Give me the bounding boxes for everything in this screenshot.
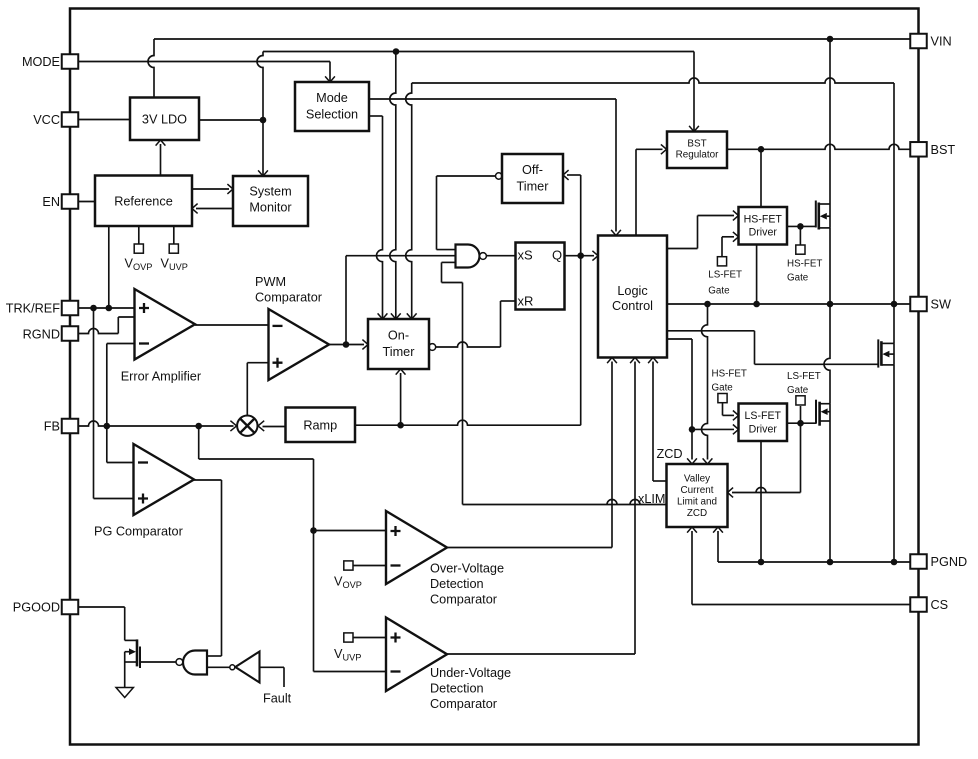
pin TRK/REF <box>62 301 79 316</box>
svg-text:Selection: Selection <box>306 108 358 122</box>
wire PGND rail to Valley block <box>713 527 910 562</box>
wire LS-FET drain to SW <box>824 304 830 404</box>
svg-text:VCC: VCC <box>33 113 60 127</box>
svg-text:LS-FET: LS-FET <box>745 410 782 422</box>
wire Reference to System Monitor <box>192 184 233 194</box>
junction SW / valley sense <box>704 301 711 308</box>
terminal LS-FET Gate (sense for HS driver) <box>717 232 738 266</box>
svg-text:MODE: MODE <box>22 55 60 69</box>
arrow into Logic Control top <box>611 230 621 236</box>
svg-text:xR: xR <box>518 293 534 308</box>
svg-text:Under-Voltage: Under-Voltage <box>430 666 511 680</box>
multiplier (FB x Ramp) <box>237 416 257 436</box>
wire SW rail <box>667 303 910 305</box>
wire EN to Reference <box>79 201 96 203</box>
pin SW <box>910 297 927 312</box>
pin MODE <box>62 54 79 69</box>
svg-text:On-: On- <box>388 329 409 343</box>
svg-text:Q: Q <box>552 247 562 262</box>
pin EN <box>62 194 79 209</box>
transistor LS-FET A <box>816 400 830 426</box>
junction TRK/REF / PG branch <box>90 305 97 312</box>
wire multiplier to PWM + <box>247 363 268 416</box>
svg-text:PGND: PGND <box>931 555 968 569</box>
svg-text:Comparator: Comparator <box>255 291 323 305</box>
wire Reference to TRK/REF node <box>108 226 110 308</box>
wire Logic Control to FET2 gate <box>667 331 878 365</box>
wire CS to Valley block <box>687 527 910 605</box>
junction SW / sense wire <box>891 301 898 308</box>
block HS-FET Driver <box>739 207 788 245</box>
wire MODE to Mode Selection <box>79 62 331 83</box>
svg-text:Gate: Gate <box>708 286 730 297</box>
block System Monitor <box>233 176 308 226</box>
wire xLIM from Valley block to NAND <box>442 262 667 504</box>
svg-text:Valley: Valley <box>684 474 710 485</box>
pin FB <box>62 419 79 434</box>
arrow into On-Timer top (SW) <box>407 313 417 319</box>
wire BST to HS-FET Driver top <box>760 149 762 207</box>
terminal VUVP (comparator) <box>344 633 386 642</box>
svg-text:3V LDO: 3V LDO <box>142 112 187 126</box>
terminal LS-FET Gate <box>796 396 805 423</box>
block Reference <box>95 176 192 227</box>
wire TRK/REF to PG Comparator + <box>94 308 134 499</box>
svg-text:Detection: Detection <box>430 682 484 696</box>
wire Reference to 3V LDO <box>156 140 166 176</box>
junction TRK/REF / Reference <box>106 305 113 312</box>
wire FB main <box>79 421 234 426</box>
svg-text:Detection: Detection <box>430 577 484 591</box>
wire LS-FET source to PGND <box>829 421 831 562</box>
pin VCC <box>62 112 79 127</box>
wire HS-FET Driver output <box>787 225 816 227</box>
svg-text:ZCD: ZCD <box>687 508 707 519</box>
svg-text:SW: SW <box>931 298 951 312</box>
svg-text:Control: Control <box>612 299 653 313</box>
arrows into Logic Control bottom <box>607 358 617 364</box>
wire Valley block to Logic Control <box>648 358 666 482</box>
svg-text:Comparator: Comparator <box>430 593 498 607</box>
NAND gate U3 (PGOOD, mirrored) <box>183 651 207 675</box>
junction VIN/HS-FET drain <box>827 36 834 43</box>
inverter Fault (mirrored) <box>235 652 259 683</box>
wire Under-Voltage Comparator to Logic Control <box>447 362 635 655</box>
arrow into On-Timer top (3V rail) <box>391 313 401 319</box>
junction Q node <box>577 252 584 259</box>
wire FET2 drain to SW <box>893 304 895 343</box>
wire Ramp to multiplier <box>263 426 286 428</box>
wire FET2 source to PGND <box>893 365 895 562</box>
svg-text:HS-FET: HS-FET <box>744 213 783 225</box>
terminal VOVP (comparator) <box>344 561 386 570</box>
wire TRK/REF to Error Amplifier + <box>79 307 135 309</box>
latch U1 (xS/xR/Q) <box>516 243 565 310</box>
junction 3V rail / On-Timer branch <box>393 48 400 55</box>
junction SW / FETs <box>827 301 834 308</box>
junction FB / comparator branch <box>195 423 202 430</box>
svg-text:Comparator: Comparator <box>430 697 498 711</box>
wire to On-Timer bottom <box>396 369 406 425</box>
wire LS-FET Driver output <box>787 422 816 424</box>
svg-text:Monitor: Monitor <box>249 201 292 215</box>
wire Logic Control to LS-FET Driver and Valley <box>667 339 739 464</box>
svg-text:RGND: RGND <box>23 328 60 342</box>
arrow into Mode Selection top <box>325 76 335 82</box>
svg-text:Timer: Timer <box>517 180 550 194</box>
svg-text:xS: xS <box>518 247 534 262</box>
comparator PG <box>134 444 195 515</box>
svg-text:Off-: Off- <box>522 163 543 177</box>
block Off-Timer <box>502 154 563 203</box>
wire VCC to 3V LDO <box>79 119 131 121</box>
bubble Off-Timer output <box>496 173 502 179</box>
svg-text:Gate: Gate <box>712 383 734 394</box>
svg-text:EN: EN <box>42 195 60 209</box>
bubble On-Timer output <box>429 344 436 351</box>
svg-text:Driver: Driver <box>749 424 778 436</box>
junction PGND / FET2 <box>891 559 898 566</box>
arrow into On-Timer top (mode) <box>378 313 388 319</box>
wire BST Regulator to BST pin <box>727 144 910 149</box>
wire Q to Off-Timer <box>563 170 581 256</box>
wire Mode Selection to Logic Control <box>369 99 616 232</box>
svg-text:VIN: VIN <box>931 35 952 49</box>
junction PGND / LS driver <box>758 559 765 566</box>
wire SW sense to On-Timer <box>406 78 894 319</box>
wire Logic Control to BST Regulator <box>636 144 667 235</box>
svg-text:HS-FET: HS-FET <box>787 259 822 270</box>
svg-text:Timer: Timer <box>383 345 416 359</box>
wire System Monitor to Reference <box>192 204 233 214</box>
wire inverter to NAND U3 <box>207 666 230 668</box>
wire On-Timer output to xR <box>436 301 516 347</box>
junction FB / EA-PG branch <box>104 423 111 430</box>
wire RGND to Error Amplifier <box>79 317 135 334</box>
svg-text:Logic: Logic <box>617 284 648 298</box>
transistor Q1 PGOOD open-drain <box>125 639 140 668</box>
block Ramp <box>286 408 356 443</box>
wire PWM output to On-Timer <box>329 340 368 350</box>
arrow into System Monitor top <box>258 170 268 176</box>
pin RGND <box>62 326 79 341</box>
svg-text:Driver: Driver <box>749 227 778 239</box>
junction BST / HS driver <box>758 146 765 153</box>
comparator Under-Voltage Detection <box>386 618 447 692</box>
svg-text:Reference: Reference <box>114 194 173 208</box>
wire HS-FET source to SW <box>829 228 831 304</box>
ground symbol <box>116 662 133 698</box>
wire NAND U3 output to Q1 gate <box>140 661 176 663</box>
wire FB to PG Comparator - <box>107 426 134 463</box>
comparator Over-Voltage Detection <box>386 511 447 584</box>
pin PGND <box>910 554 927 569</box>
svg-text:Error Amplifier: Error Amplifier <box>121 370 202 384</box>
transistor HS-FET <box>816 201 830 230</box>
wire NAND output to xS <box>487 255 516 257</box>
wire PG Comparator to NAND <box>194 480 222 656</box>
wire Logic Control to HS-FET Driver <box>667 211 739 249</box>
NAND gate U2 <box>456 245 480 268</box>
block LS-FET Driver <box>739 404 788 442</box>
wire PWM output to NAND <box>346 256 456 345</box>
wire Mode Selection to On-Timer <box>369 116 383 319</box>
op-amp Error Amplifier <box>135 289 196 360</box>
svg-text:ZCD: ZCD <box>657 447 683 461</box>
svg-text:PGOOD: PGOOD <box>13 601 60 615</box>
junction ZCD node <box>689 426 696 433</box>
wire HS-FET Driver to SW <box>756 245 758 305</box>
terminal VUVP under Reference <box>169 226 178 253</box>
junction PWM output <box>343 341 350 348</box>
svg-text:Limit and: Limit and <box>677 497 717 508</box>
svg-text:Ramp: Ramp <box>303 418 337 432</box>
block Valley Current Limit and ZCD <box>667 464 728 527</box>
svg-text:PWM: PWM <box>255 275 286 289</box>
svg-text:LS-FET: LS-FET <box>708 270 742 281</box>
svg-text:TRK/REF: TRK/REF <box>6 302 61 316</box>
wire Q to Ramp and On-Timer <box>355 256 581 426</box>
arrow into BST Regulator top <box>689 126 699 132</box>
svg-text:BST: BST <box>687 138 706 149</box>
wire FB to Error Amplifier - <box>107 344 135 427</box>
svg-text:System: System <box>249 185 291 199</box>
svg-text:LS-FET: LS-FET <box>787 371 821 382</box>
pin VIN <box>910 34 927 49</box>
junction PGND / LS-FET <box>827 559 834 566</box>
wire SW to Valley block <box>702 304 713 464</box>
wire PGOOD to open-drain FET <box>79 607 125 640</box>
junction 3V LDO output <box>260 117 267 124</box>
svg-text:CS: CS <box>931 598 949 612</box>
wire Error Amplifier to PWM - <box>195 324 269 326</box>
pin PGOOD <box>62 600 79 615</box>
wire Fault input <box>260 667 285 687</box>
block BST Regulator <box>667 132 727 169</box>
comparator PWM <box>269 309 330 380</box>
block Logic Control <box>598 236 667 358</box>
svg-text:Regulator: Regulator <box>676 150 720 161</box>
wire Over-Voltage Comparator to Logic Control <box>447 362 612 548</box>
transistor LS-FET B <box>878 339 894 367</box>
svg-text:Over-Voltage: Over-Voltage <box>430 562 504 576</box>
pin CS <box>910 597 927 612</box>
wire LS-FET Driver to PGND <box>760 441 762 562</box>
pin BST <box>910 142 927 157</box>
wire 3V LDO output rail <box>199 52 694 320</box>
svg-text:FB: FB <box>44 420 60 434</box>
terminal HS-FET Gate (sense for LS driver) <box>718 394 739 421</box>
junction LS gate node <box>797 420 804 427</box>
svg-text:BST: BST <box>931 143 956 157</box>
wire LS gate to Valley block <box>728 423 801 497</box>
block Mode Selection <box>295 82 369 131</box>
junction FB / OVP-UVP branch <box>310 527 317 534</box>
svg-text:xLIM: xLIM <box>638 492 666 506</box>
svg-text:Gate: Gate <box>787 273 809 284</box>
wire Q output to Logic Control <box>565 251 599 261</box>
terminal HS-FET Gate <box>796 226 805 254</box>
svg-text:HS-FET: HS-FET <box>712 369 747 380</box>
svg-text:Fault: Fault <box>263 691 292 705</box>
svg-text:PG Comparator: PG Comparator <box>94 525 184 539</box>
block On-Timer <box>368 319 429 369</box>
junction Ramp wire / On-Timer <box>397 422 404 429</box>
svg-text:Mode: Mode <box>316 91 348 105</box>
junction SW / HS driver <box>753 301 760 308</box>
wire FB to voltage comparators <box>199 426 386 672</box>
wire VIN rail (top) <box>148 39 910 204</box>
svg-text:Current: Current <box>681 485 714 496</box>
wire Off-Timer output to NAND <box>437 176 496 250</box>
block 3V LDO <box>130 98 199 141</box>
terminal VOVP under Reference <box>134 226 143 253</box>
junction HS gate node <box>797 223 804 230</box>
svg-text:Gate: Gate <box>787 385 809 396</box>
